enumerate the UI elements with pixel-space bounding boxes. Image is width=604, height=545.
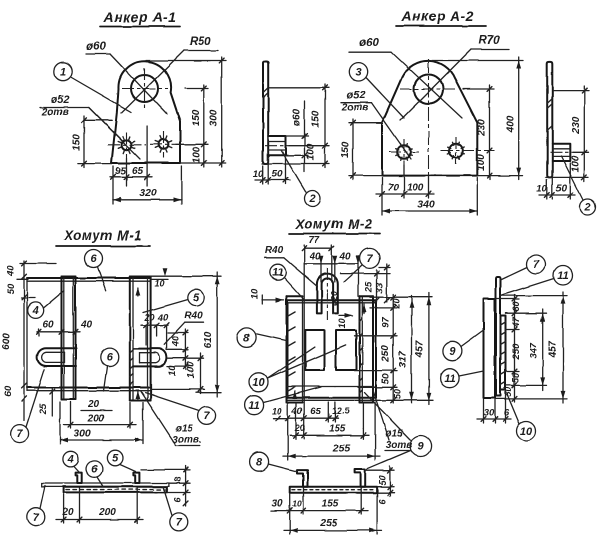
svg-text:250: 250 bbox=[381, 345, 392, 363]
svg-text:50: 50 bbox=[511, 373, 521, 383]
svg-text:457: 457 bbox=[414, 340, 425, 358]
svg-text:2: 2 bbox=[583, 202, 590, 214]
dim 300 bottom M-1 bbox=[59, 402, 61, 444]
arrow mark bottom right bar M-1 bbox=[137, 391, 139, 399]
svg-text:10: 10 bbox=[167, 365, 178, 376]
dim 40 50 600 60 left column M-1 bbox=[23, 261, 25, 420]
svg-text:ø52: ø52 bbox=[347, 90, 366, 102]
slot right M-1 bbox=[134, 349, 167, 367]
dim 317 M-2 bbox=[411, 296, 413, 404]
svg-text:6: 6 bbox=[90, 253, 97, 265]
svg-text:ø15: ø15 bbox=[175, 424, 193, 435]
svg-text:300: 300 bbox=[73, 428, 91, 440]
dim 100 right M-1 bbox=[151, 388, 205, 390]
flat bar right M-1 bbox=[129, 277, 131, 401]
svg-text:40: 40 bbox=[338, 252, 351, 263]
svg-text:4: 4 bbox=[67, 454, 74, 466]
plate M-1 top edge bbox=[27, 277, 151, 279]
svg-text:R70: R70 bbox=[478, 35, 500, 47]
flat bar left M-1 bbox=[61, 277, 63, 400]
svg-text:40: 40 bbox=[308, 252, 321, 263]
svg-text:5: 5 bbox=[193, 292, 200, 304]
svg-text:40: 40 bbox=[6, 266, 16, 277]
svg-text:11: 11 bbox=[557, 270, 568, 282]
strap bottom view M-1 bbox=[42, 483, 169, 486]
svg-text:33: 33 bbox=[374, 282, 385, 293]
svg-text:11: 11 bbox=[272, 267, 283, 279]
svg-text:50: 50 bbox=[381, 373, 392, 384]
balloon 7 top M-2 bbox=[360, 248, 380, 268]
flat bar right M-2 bbox=[359, 296, 361, 402]
svg-text:317: 317 bbox=[398, 351, 409, 368]
upright left bottom view M-1 bbox=[76, 473, 82, 483]
dim 230/100 side A-2 bbox=[553, 90, 589, 92]
weld marks right bar M-1 bbox=[130, 350, 133, 353]
svg-text:ø60: ø60 bbox=[86, 41, 106, 53]
hook centerline M-2 bbox=[326, 268, 328, 320]
dim 150/100 side A-1 bbox=[269, 87, 329, 89]
svg-text:10: 10 bbox=[272, 406, 282, 416]
dim 10 top right M-1 bbox=[151, 275, 221, 277]
svg-text:150: 150 bbox=[72, 134, 83, 151]
svg-text:95: 95 bbox=[115, 166, 127, 177]
svg-text:155: 155 bbox=[329, 423, 346, 434]
dim 10 50 side A-2 bbox=[546, 180, 548, 200]
plate A-1 outline bbox=[112, 61, 181, 163]
dim column 20 97 250 50 50 M-2 bbox=[370, 296, 432, 298]
dim 60 40 mid left M-1 bbox=[37, 331, 80, 333]
svg-text:ø60: ø60 bbox=[359, 37, 379, 49]
balloon 2 A-1 bbox=[281, 150, 306, 192]
svg-text:3: 3 bbox=[355, 66, 361, 78]
balloon 5 M-1 bbox=[188, 289, 204, 305]
svg-text:300: 300 bbox=[209, 109, 220, 126]
dim 610 right M-1 bbox=[196, 392, 221, 394]
svg-text:40: 40 bbox=[80, 320, 93, 331]
svg-text:100: 100 bbox=[476, 154, 487, 171]
pipe side A-2 bbox=[552, 144, 570, 161]
hole Ø60 A-2 bbox=[414, 75, 443, 104]
dim 25 bottom left M-1 bbox=[51, 388, 53, 416]
svg-text:10: 10 bbox=[252, 377, 265, 389]
svg-text:20: 20 bbox=[61, 507, 74, 518]
slot left M-1 bbox=[37, 348, 76, 366]
svg-text:60: 60 bbox=[511, 301, 521, 311]
svg-text:30: 30 bbox=[271, 499, 283, 510]
svg-text:255: 255 bbox=[319, 517, 338, 529]
svg-text:4: 4 bbox=[32, 305, 39, 317]
svg-text:7: 7 bbox=[17, 428, 24, 440]
dim 20 bottom M-1 bbox=[81, 410, 112, 412]
flat bar left M-2 bbox=[286, 296, 288, 402]
svg-text:10: 10 bbox=[154, 279, 164, 289]
svg-text:R50: R50 bbox=[189, 36, 211, 48]
dim 457 side M-2 bbox=[562, 292, 564, 403]
dim 20 40 mid right M-1 bbox=[141, 324, 168, 326]
bar strip side M-2 bbox=[501, 316, 506, 391]
centerlines hole A-1 bbox=[122, 88, 168, 90]
balloon 6 bottom M-1 bbox=[86, 461, 102, 477]
balloon 1 bbox=[54, 62, 72, 80]
svg-text:230: 230 bbox=[477, 119, 488, 137]
dim 30 6 bottom side M-2 bbox=[483, 400, 485, 424]
upright left bottom view M-2 bbox=[297, 470, 308, 487]
balloon 9 side M-2 bbox=[443, 341, 462, 360]
balloon 6 top M-1 bbox=[85, 250, 103, 268]
svg-text:1: 1 bbox=[60, 66, 66, 78]
plate A-2 outline bbox=[382, 61, 477, 176]
svg-text:400: 400 bbox=[506, 115, 517, 133]
svg-text:230: 230 bbox=[571, 116, 582, 134]
balloon 7 left M-1 bbox=[11, 425, 29, 443]
svg-text:30: 30 bbox=[484, 408, 495, 419]
balloon 4 bottom M-1 bbox=[63, 451, 79, 467]
dim 40 40 top M-2 bbox=[320, 260, 322, 282]
hook rod side M-2 bbox=[496, 277, 501, 396]
svg-text:Хомут М-2: Хомут М-2 bbox=[294, 217, 373, 232]
dims 10 40 65 12.5 bottom M-2 bbox=[287, 402, 289, 460]
hole Ø52 left A-2 bbox=[397, 145, 411, 159]
dim 10 at window M-2 bbox=[339, 314, 353, 316]
svg-text:2отв: 2отв bbox=[41, 107, 69, 118]
balloon 4 M-1 bbox=[28, 302, 44, 318]
svg-text:255: 255 bbox=[332, 443, 351, 455]
side plate M-2 bbox=[484, 299, 496, 398]
svg-text:70: 70 bbox=[387, 183, 399, 194]
svg-text:ø52: ø52 bbox=[51, 94, 70, 106]
svg-text:20: 20 bbox=[87, 399, 100, 410]
arrow mark left bar M-2 bbox=[294, 391, 296, 399]
svg-text:2: 2 bbox=[308, 193, 315, 205]
svg-text:60: 60 bbox=[42, 320, 54, 331]
svg-text:320: 320 bbox=[139, 187, 157, 199]
svg-text:347: 347 bbox=[528, 342, 539, 359]
svg-text:600: 600 bbox=[2, 333, 13, 350]
svg-text:50: 50 bbox=[271, 169, 283, 180]
svg-text:Хомут М-1: Хомут М-1 bbox=[63, 228, 142, 243]
svg-text:6: 6 bbox=[107, 352, 114, 364]
svg-text:9: 9 bbox=[449, 345, 456, 357]
dim 255 lower M-2 front bbox=[374, 402, 376, 460]
svg-text:100: 100 bbox=[571, 155, 582, 172]
upright right bottom view M-2 bbox=[355, 469, 366, 487]
svg-text:3отв.: 3отв. bbox=[172, 435, 201, 446]
svg-text:50: 50 bbox=[378, 475, 388, 485]
svg-text:457: 457 bbox=[548, 341, 559, 359]
svg-text:25: 25 bbox=[38, 403, 49, 415]
svg-text:50: 50 bbox=[6, 283, 17, 294]
balloon 3 A-2 bbox=[349, 63, 367, 81]
svg-text:8: 8 bbox=[173, 477, 183, 482]
dim 10 50 side A-1 bbox=[262, 166, 264, 185]
svg-text:10: 10 bbox=[250, 288, 261, 299]
dim 347 side M-2 bbox=[542, 309, 544, 390]
svg-text:10: 10 bbox=[337, 318, 347, 328]
svg-text:7: 7 bbox=[533, 259, 540, 271]
svg-text:150: 150 bbox=[311, 110, 322, 127]
balloon 7 bottom right M-1 bbox=[170, 513, 188, 531]
svg-text:50: 50 bbox=[393, 389, 403, 399]
dim 20 200 bottom view M-1 bbox=[63, 494, 65, 523]
dim column 60 47 250 50 50 side M-2 bbox=[495, 298, 519, 300]
dim 230/100 right A-2 bbox=[463, 88, 494, 90]
plate M-1 bottom edge bbox=[27, 387, 151, 389]
hole Ø52 right A-1 bbox=[159, 139, 169, 149]
window right M-2 bbox=[336, 330, 356, 370]
svg-text:2отв: 2отв bbox=[341, 103, 369, 114]
svg-text:65: 65 bbox=[132, 166, 144, 177]
svg-text:8: 8 bbox=[256, 456, 263, 468]
hook M-2 bbox=[317, 274, 338, 314]
balloon 8 M-2 bbox=[237, 328, 256, 347]
dim 300 A-1 bbox=[146, 60, 226, 62]
svg-text:100: 100 bbox=[192, 146, 203, 163]
plate M-1 left end bbox=[26, 278, 28, 391]
dim 255 bottom view M-2 bbox=[376, 494, 378, 534]
svg-text:50: 50 bbox=[503, 387, 513, 397]
balloon 11 left side M-2 bbox=[440, 369, 459, 388]
centerlines A-2 bbox=[400, 88, 457, 90]
svg-text:Анкер А-2: Анкер А-2 bbox=[401, 8, 475, 24]
svg-text:11: 11 bbox=[248, 400, 259, 412]
dims 20 155 bottom M-2 bbox=[295, 403, 297, 439]
balloon 7 side M-2 bbox=[527, 255, 546, 274]
svg-text:155: 155 bbox=[322, 499, 339, 510]
dim 200 bottom M-1 bbox=[70, 402, 72, 428]
svg-text:100: 100 bbox=[186, 361, 197, 378]
svg-text:ø60: ø60 bbox=[292, 108, 303, 126]
svg-text:20: 20 bbox=[294, 423, 306, 434]
svg-text:R40: R40 bbox=[265, 245, 284, 256]
dim 50 6 right bottom view M-2 bbox=[366, 469, 395, 471]
hole Ø52 right A-2 bbox=[449, 144, 463, 158]
window left M-2 bbox=[305, 330, 324, 370]
svg-text:10: 10 bbox=[536, 184, 547, 195]
hole Ø52 left A-1 bbox=[122, 140, 132, 150]
svg-text:610: 610 bbox=[203, 331, 214, 348]
svg-text:250: 250 bbox=[511, 343, 522, 361]
svg-text:100: 100 bbox=[407, 183, 424, 194]
svg-text:200: 200 bbox=[98, 507, 116, 518]
dim 150 left A-2 bbox=[349, 122, 382, 124]
svg-text:100: 100 bbox=[306, 143, 317, 160]
balloon 7 right M-1 bbox=[198, 406, 216, 424]
dim 320 A-1 bbox=[180, 166, 182, 204]
balloon 9 M-2 bbox=[410, 436, 431, 457]
dim 70 100 bottom A-2 bbox=[381, 178, 383, 215]
balloon 2 A-2 bbox=[561, 156, 583, 200]
svg-text:7: 7 bbox=[367, 253, 374, 265]
dim 8 6 right bottom M-1 bbox=[141, 469, 190, 471]
svg-text:Анкер А-1: Анкер А-1 bbox=[103, 9, 177, 25]
svg-text:97: 97 bbox=[381, 317, 392, 328]
dims 30 10 155 bottom view M-2 bbox=[289, 494, 291, 534]
svg-text:6: 6 bbox=[91, 464, 98, 476]
svg-text:9: 9 bbox=[418, 441, 425, 453]
dim 457 M-2 bbox=[428, 293, 430, 405]
side plate A-2 bbox=[547, 62, 552, 177]
balloon 6 mid M-1 bbox=[101, 349, 119, 367]
balloon 5 bottom M-1 bbox=[107, 450, 123, 466]
dim 77 top M-2 bbox=[303, 245, 305, 418]
svg-text:20: 20 bbox=[392, 298, 402, 309]
svg-text:150: 150 bbox=[341, 141, 352, 158]
svg-text:10: 10 bbox=[292, 498, 302, 508]
dim 150/100 right A-1 bbox=[185, 88, 208, 90]
svg-text:12.5: 12.5 bbox=[332, 406, 351, 416]
plate M-2 outline bbox=[288, 299, 377, 301]
svg-text:47: 47 bbox=[511, 316, 521, 328]
balloon 11 left M-2 bbox=[245, 396, 264, 415]
hole Ø60 A-1 bbox=[131, 75, 158, 102]
pipe side A-1 bbox=[268, 136, 285, 155]
svg-text:40: 40 bbox=[171, 335, 182, 347]
strip bottom view M-1 bbox=[64, 487, 167, 493]
svg-text:7: 7 bbox=[33, 511, 40, 523]
balloon 7 bottom left M-1 bbox=[27, 508, 45, 526]
balloon 10 M-2 bbox=[249, 373, 268, 392]
strip bottom view M-2 bbox=[290, 487, 377, 493]
dim 340 A-2 bbox=[476, 178, 478, 215]
upright right bottom view M-1 bbox=[133, 473, 139, 483]
svg-text:8: 8 bbox=[244, 332, 251, 344]
svg-text:7: 7 bbox=[204, 410, 211, 422]
svg-text:150: 150 bbox=[191, 109, 202, 126]
svg-text:40: 40 bbox=[291, 406, 303, 417]
svg-text:60: 60 bbox=[3, 386, 14, 397]
svg-text:20: 20 bbox=[143, 313, 154, 323]
fold line M-2 bbox=[288, 386, 375, 388]
svg-text:10: 10 bbox=[253, 169, 264, 180]
dim 40 10 right of slot M-1 bbox=[168, 332, 188, 334]
svg-text:7: 7 bbox=[176, 517, 183, 529]
dim 25 33 right top M-2 bbox=[340, 273, 390, 275]
svg-text:65: 65 bbox=[310, 406, 321, 417]
svg-text:11: 11 bbox=[444, 373, 455, 385]
svg-text:25: 25 bbox=[364, 281, 375, 293]
side plate A-1 bbox=[263, 62, 268, 164]
balloon 10 side M-2 bbox=[517, 422, 536, 441]
svg-text:40: 40 bbox=[157, 313, 169, 324]
svg-text:50: 50 bbox=[556, 184, 568, 195]
arrow mark inside right bar M-1 bbox=[137, 288, 139, 297]
svg-text:R40: R40 bbox=[184, 311, 203, 322]
svg-text:77: 77 bbox=[308, 235, 320, 246]
dim 150 left A-1 bbox=[83, 116, 85, 168]
svg-text:340: 340 bbox=[417, 199, 435, 211]
arrow mark inside right bar M-2 bbox=[363, 304, 365, 313]
svg-text:6: 6 bbox=[504, 408, 510, 419]
balloon 11 top M-2 bbox=[270, 264, 286, 280]
svg-text:10: 10 bbox=[520, 426, 533, 438]
balloon 11 side M-2 bbox=[554, 266, 573, 285]
balloon 8 bottom M-2 bbox=[250, 452, 269, 471]
dim Ø60 side A-1 bbox=[286, 135, 309, 137]
svg-text:200: 200 bbox=[87, 414, 105, 425]
svg-text:5: 5 bbox=[112, 453, 119, 465]
dim 95 65 A-1 bbox=[112, 166, 114, 204]
svg-text:3отв: 3отв bbox=[386, 440, 413, 451]
dim 400 A-2 bbox=[432, 60, 523, 62]
